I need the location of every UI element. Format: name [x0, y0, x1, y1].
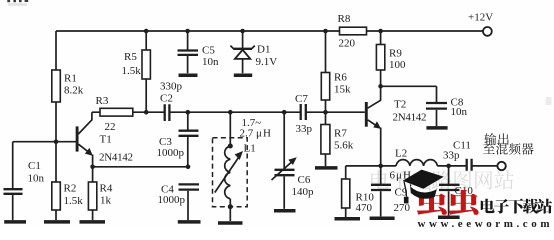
svg-text:H: H	[263, 127, 271, 139]
ground R7	[315, 166, 338, 170]
ground C6	[274, 209, 296, 213]
svg-text:C1: C1	[28, 160, 41, 172]
svg-text:C6: C6	[298, 174, 311, 186]
node rail/R6	[323, 29, 328, 34]
ground C9	[370, 216, 395, 220]
svg-text:100: 100	[389, 59, 406, 71]
capacitor C5	[178, 31, 220, 73]
ground C1	[4, 220, 26, 224]
capacitor C10	[439, 166, 473, 216]
svg-text:33p: 33p	[443, 149, 460, 161]
wire top rail left of R8	[56, 30, 340, 32]
label 至混频器	[483, 143, 495, 154]
svg-text:1.5k: 1.5k	[64, 195, 84, 207]
capacitor C11 33p	[443, 140, 472, 171]
svg-text:R4: R4	[100, 183, 113, 195]
inductor L1 (variable, dashed box)	[213, 112, 272, 221]
svg-text:22: 22	[105, 121, 116, 133]
ground R2	[44, 220, 70, 224]
svg-text:D1: D1	[257, 44, 270, 56]
ground C8	[426, 126, 447, 130]
svg-text:1k: 1k	[100, 195, 112, 207]
watermark gray text 电子电路图网站	[371, 170, 514, 189]
label 输出	[484, 133, 496, 145]
node rail/R5	[144, 29, 149, 34]
svg-text:L2: L2	[395, 148, 407, 160]
capacitor C7 33p	[295, 93, 313, 135]
svg-text:+12V: +12V	[468, 12, 493, 24]
svg-text:C7: C7	[295, 93, 308, 105]
svg-text:220: 220	[339, 38, 356, 50]
capacitor C2 330p	[160, 81, 183, 122]
node C10 tap	[446, 164, 451, 169]
svg-text:10n: 10n	[202, 56, 219, 68]
svg-text:T1: T1	[100, 134, 112, 146]
ground R4	[80, 220, 106, 224]
node R5/middle line	[144, 110, 149, 115]
wire T1 base net	[13, 141, 76, 143]
node R9/C8/T2 collector	[378, 84, 383, 89]
svg-text:2N4142: 2N4142	[393, 112, 427, 124]
svg-text:1000p: 1000p	[158, 194, 186, 206]
node middle/C3	[186, 110, 191, 115]
wire middle line C7 to T2 base	[306, 111, 365, 113]
svg-text:L1: L1	[244, 143, 256, 155]
ground R10	[335, 217, 361, 221]
node middle/L1	[228, 110, 233, 115]
svg-text:R9: R9	[389, 48, 402, 60]
svg-text:μ: μ	[256, 127, 262, 139]
zener diode D1 9.1V	[230, 31, 277, 73]
svg-text:C5: C5	[202, 45, 215, 57]
output terminal	[497, 162, 505, 170]
node emitter/output	[378, 164, 383, 169]
node L1 bottom	[228, 204, 233, 209]
svg-text:330p: 330p	[160, 81, 183, 93]
inductor L2	[390, 148, 438, 182]
wire C11 to output terminal	[472, 165, 498, 167]
svg-text:9.1V: 9.1V	[256, 56, 278, 68]
resistor R5	[122, 31, 151, 112]
resistor R2	[52, 142, 83, 220]
right edge smudge	[546, 97, 552, 105]
+12V terminal	[483, 27, 492, 36]
capacitor C9	[371, 166, 411, 217]
wire output line	[346, 165, 396, 167]
node T1 emitter junction	[90, 165, 95, 170]
svg-text:C2: C2	[160, 93, 173, 105]
resistor R6	[321, 31, 351, 112]
ground L1	[218, 221, 243, 225]
svg-text:140p: 140p	[292, 186, 315, 198]
svg-text:270: 270	[394, 202, 411, 214]
svg-text:R2: R2	[64, 183, 77, 195]
svg-text:R6: R6	[334, 72, 347, 84]
node rail/R9	[378, 29, 383, 34]
svg-text:R8: R8	[338, 13, 351, 25]
svg-text:33p: 33p	[296, 123, 313, 135]
ground D1	[234, 73, 252, 77]
resistor R9	[376, 31, 406, 86]
corner print fragments	[7, 0, 28, 2]
capacitor C6 variable 140p	[272, 112, 315, 209]
ground C10	[438, 215, 460, 219]
resistor R7	[321, 112, 354, 166]
resistor R1	[52, 31, 84, 142]
node rail/C5	[185, 29, 190, 34]
svg-text:2.7: 2.7	[240, 127, 254, 139]
svg-text:10n: 10n	[451, 106, 468, 118]
svg-text:470: 470	[356, 202, 373, 214]
transistor T2	[366, 86, 426, 166]
svg-text:6: 6	[390, 170, 396, 182]
svg-text:2N4142: 2N4142	[99, 152, 133, 164]
node L1 top	[228, 144, 233, 149]
svg-text:T2: T2	[394, 99, 406, 111]
svg-text:μ: μ	[396, 170, 402, 182]
ground C4	[178, 220, 201, 224]
svg-text:10n: 10n	[28, 173, 45, 185]
svg-text:R7: R7	[334, 127, 347, 139]
resistor R8	[338, 13, 367, 50]
transistor T1	[77, 112, 133, 182]
node middle/C6	[282, 110, 287, 115]
capacitor C3	[157, 112, 199, 167]
wire T1 emitter to C3/C4 node	[93, 166, 188, 168]
wire middle line C2 to C7	[169, 111, 300, 113]
resistor R3	[92, 95, 164, 133]
wire L2 to C11	[437, 165, 467, 167]
node base/R1/R2 junction	[54, 139, 59, 144]
node emitter line/C3/C4	[186, 165, 191, 170]
svg-text:15k: 15k	[334, 83, 351, 95]
wire top rail right of R8 to +12V	[367, 30, 483, 32]
watermark 电子下载站	[481, 199, 495, 214]
svg-text:1000p: 1000p	[157, 147, 185, 159]
svg-text:8.2k: 8.2k	[64, 85, 84, 97]
watermark graduation cap	[403, 170, 444, 204]
ground C5	[179, 73, 198, 77]
svg-text:R1: R1	[64, 73, 77, 85]
capacitor C4	[158, 184, 200, 221]
svg-text:R3: R3	[96, 95, 109, 107]
node rail/D1	[240, 29, 245, 34]
svg-text:5.6k: 5.6k	[334, 140, 354, 152]
capacitor C8	[381, 86, 468, 126]
node middle/R6/R7	[323, 110, 328, 115]
resistor R10	[342, 166, 375, 217]
capacitor C1	[4, 142, 45, 220]
resistor R4	[88, 182, 112, 220]
watermark 虫虫 red	[417, 190, 447, 215]
svg-text:1.5k: 1.5k	[122, 65, 142, 77]
svg-text:R5: R5	[124, 51, 137, 63]
